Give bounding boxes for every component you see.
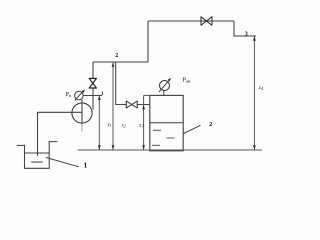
- dimension z4 (line x=254.4 from outlet y=36 to datum): [253, 36, 255, 150]
- leader line to label 2: [184, 125, 201, 133]
- wire: top discharge pipe y=21: [148, 20, 234, 22]
- wire: tee line y=95.5 from gauge to point 1: [83, 95, 102, 97]
- wire: pipe below valve V1 to tee: [92, 88, 94, 110]
- dimension z1 (line x=99.3 from point 1 level to datum): [98, 96, 100, 150]
- liquid dash in tank: [31, 161, 42, 163]
- vessel 2 (closed tank): [150, 95, 183, 150]
- svg-text:z1: z1: [107, 122, 112, 128]
- wire: faint stub below pump: [81, 123, 83, 131]
- svg-text:3: 3: [245, 32, 248, 38]
- svg-text:Pв: Pв: [66, 91, 71, 98]
- svg-text:2: 2: [115, 53, 118, 59]
- svg-text:z4: z4: [258, 85, 263, 91]
- valve V2 (horizontal, vessel feed): [126, 101, 137, 108]
- wire: pump vertical line through circle: [81, 100, 83, 124]
- wire: pipe from header down to valve V1: [92, 62, 94, 78]
- wire: drop x=234 and outlet step to point 3: [234, 21, 256, 36]
- svg-text:1: 1: [84, 161, 88, 170]
- svg-text:z2: z2: [121, 123, 126, 129]
- liquid dashes in vessel: [152, 130, 175, 145]
- wire: branch pipe x=115.7 down then right to vessel: [116, 62, 127, 105]
- liquid level in vessel: [150, 122, 183, 124]
- svg-text:Pам: Pам: [183, 77, 191, 84]
- wire: pump suction from tank riser: [38, 112, 83, 156]
- wire: riser x=148 from line y=62 up to y=21: [147, 21, 149, 62]
- dimension z3 (line x=143.8 from vessel top to datum): [144, 95, 150, 149]
- datum line (reference plane): [78, 149, 262, 151]
- wire: pipe from valve V2 into vessel: [137, 104, 150, 106]
- liquid level in tank: [25, 152, 50, 154]
- svg-text:2: 2: [209, 121, 212, 128]
- manometer Pm (circle with arrow, on vessel): [159, 79, 170, 95]
- svg-text:z3: z3: [138, 123, 143, 129]
- valve V3 (horizontal, top discharge line): [201, 17, 212, 26]
- tank 1 (open reservoir, bottom left): [17, 142, 58, 169]
- vacuum gauge Pv (circle with arrow, at pump): [75, 91, 84, 101]
- dimension z2 (line x=113 from header y=62 to datum): [112, 62, 114, 150]
- wire: horizontal header y=62: [93, 61, 148, 63]
- pump (circle): [72, 103, 92, 123]
- valve V1 (vertical, above pump): [89, 78, 96, 88]
- leader line to label 1: [46, 158, 79, 167]
